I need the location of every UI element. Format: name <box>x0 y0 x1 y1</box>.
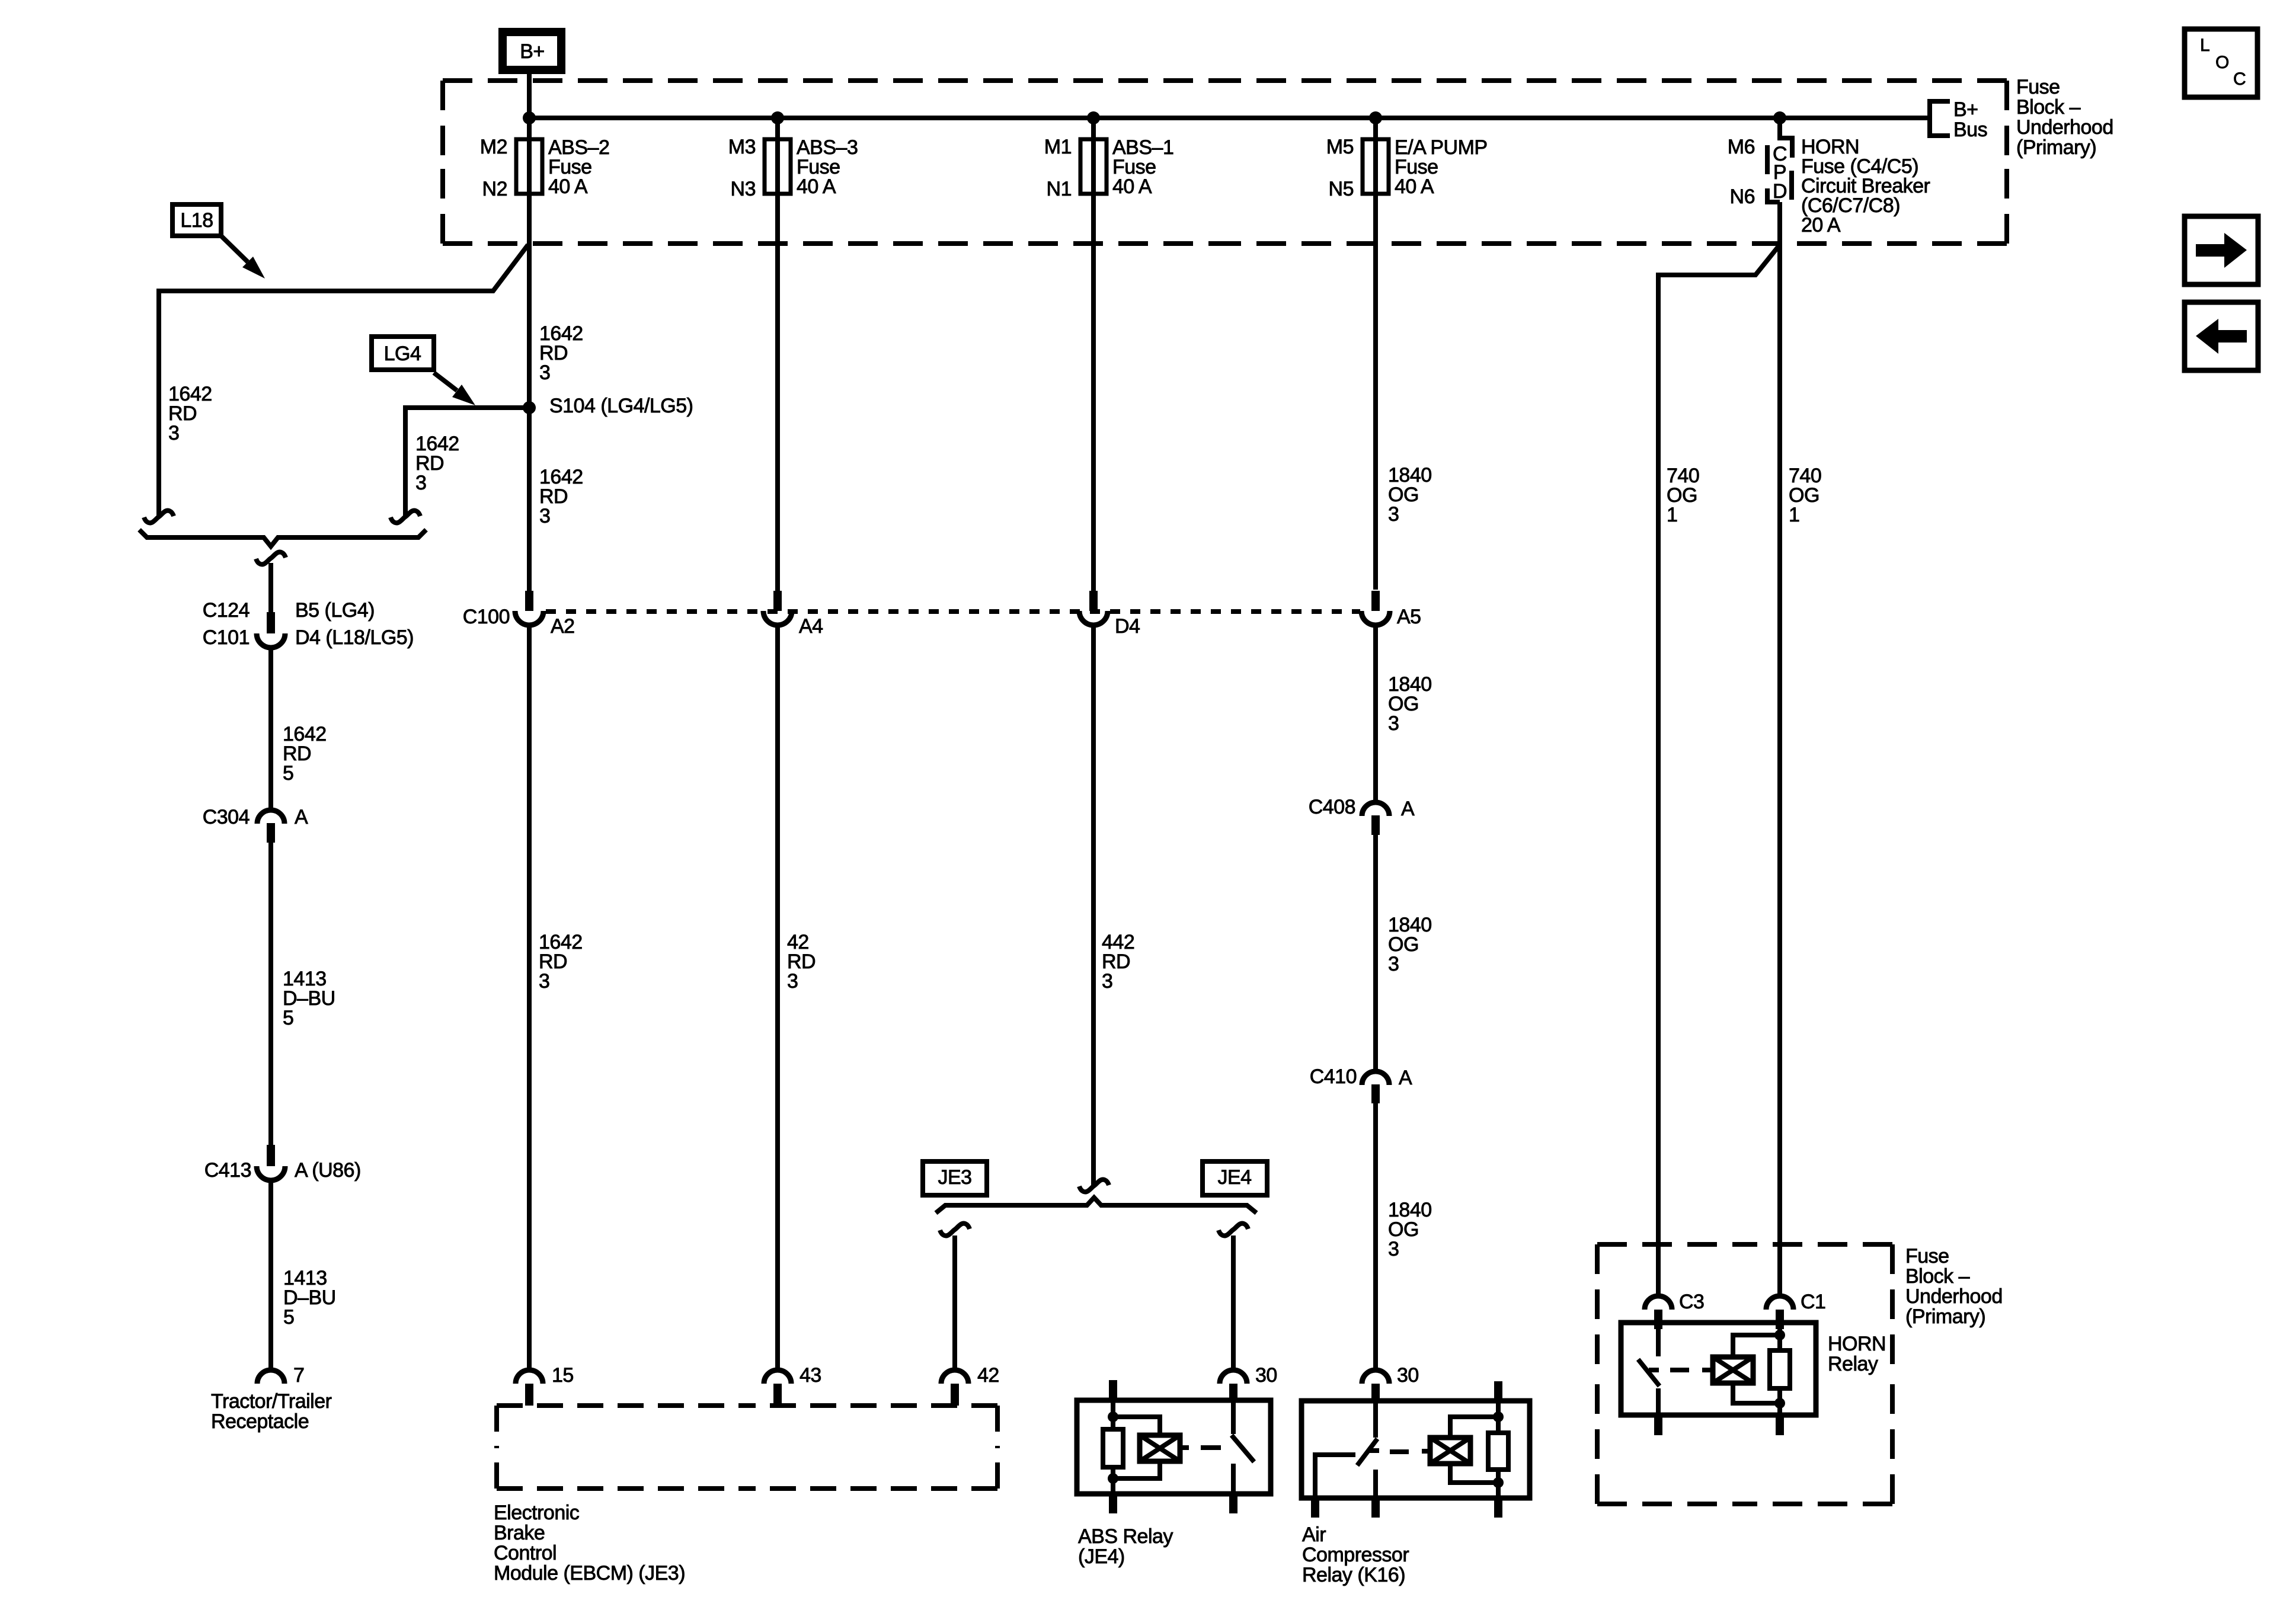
svg-text:42: 42 <box>977 1364 999 1387</box>
svg-text:M3: M3 <box>728 136 756 158</box>
svg-text:N1: N1 <box>1047 178 1072 200</box>
svg-text:(JE4): (JE4) <box>1078 1545 1125 1568</box>
svg-text:Fuse: Fuse <box>1905 1245 1949 1267</box>
wire C101 to C304 <box>268 646 273 810</box>
svg-text:15: 15 <box>552 1364 574 1387</box>
node air relay coil top junction <box>1493 1411 1504 1422</box>
svg-text:A (U86): A (U86) <box>295 1159 361 1182</box>
wire 1642 RD to EBCM pin 15 <box>527 625 532 1370</box>
node bus junction M5 <box>1369 111 1382 124</box>
svg-text:3: 3 <box>1388 1238 1399 1260</box>
svg-text:N6: N6 <box>1730 185 1755 208</box>
svg-text:C: C <box>2233 69 2246 89</box>
legend LOC box <box>2185 29 2257 97</box>
svg-text:A4: A4 <box>799 615 823 638</box>
connector C100 pin A5 <box>1371 591 1380 611</box>
svg-text:40 A: 40 A <box>797 175 836 198</box>
svg-text:N2: N2 <box>482 178 507 200</box>
wire break JE4 branch <box>1219 1224 1248 1236</box>
wire M1 fuse to C100 D4 <box>1091 118 1096 591</box>
svg-text:5: 5 <box>283 1007 293 1029</box>
connector ABS relay pin 30 <box>1220 1370 1247 1384</box>
wire ABS relay left branch <box>1111 1400 1115 1494</box>
svg-text:L: L <box>2200 36 2209 55</box>
svg-text:Underhood: Underhood <box>2016 116 2113 139</box>
wire coil stub <box>1422 1449 1430 1454</box>
node ABS relay coil bottom junction <box>1108 1473 1118 1484</box>
resistor air compressor relay <box>1488 1433 1508 1470</box>
coil horn relay loop wires <box>1733 1335 1780 1357</box>
svg-text:3: 3 <box>1102 970 1112 993</box>
svg-text:3: 3 <box>1388 712 1399 735</box>
svg-text:N5: N5 <box>1329 178 1354 200</box>
wire B+ bus <box>529 116 1927 120</box>
svg-text:7: 7 <box>293 1364 304 1387</box>
node bus junction M2 <box>523 111 536 124</box>
coil ABS relay winding symbol <box>1140 1435 1180 1461</box>
dashed linkage ABS relay <box>1201 1445 1221 1450</box>
connector C408 pin A <box>1362 802 1389 816</box>
connector C100 pin A2 <box>525 591 533 611</box>
svg-text:Control: Control <box>494 1542 557 1564</box>
svg-text:1: 1 <box>1667 504 1677 526</box>
arrow L18 pointer <box>221 236 248 262</box>
node bus junction M3 <box>771 111 784 124</box>
pin ABS relay bottom-right stub <box>1229 1494 1237 1513</box>
node label box JE4 <box>1203 1161 1267 1195</box>
wire C410 to relay 30 <box>1373 1103 1378 1370</box>
svg-text:C3: C3 <box>1679 1291 1704 1313</box>
node label box JE3 <box>923 1161 987 1195</box>
relay HORN relay box <box>1621 1323 1816 1415</box>
svg-text:5: 5 <box>283 1306 294 1329</box>
svg-text:A2: A2 <box>551 615 575 638</box>
svg-text:B5 (LG4): B5 (LG4) <box>295 599 375 622</box>
connector horn relay pin C3 <box>1645 1296 1672 1310</box>
svg-text:ABS Relay: ABS Relay <box>1078 1525 1173 1548</box>
svg-text:Receptacle: Receptacle <box>211 1410 309 1433</box>
wire LG4 branch from S104 <box>405 408 529 517</box>
svg-text:D4 (L18/LG5): D4 (L18/LG5) <box>295 626 414 649</box>
wire M5 fuse to C100 A5 <box>1373 118 1378 590</box>
svg-text:Module (EBCM) (JE3): Module (EBCM) (JE3) <box>494 1562 685 1585</box>
svg-text:40 A: 40 A <box>1395 175 1434 198</box>
wire jog N6 to C3 branch <box>1658 245 1780 1296</box>
svg-text:A5: A5 <box>1397 606 1421 628</box>
svg-text:C413: C413 <box>204 1159 251 1182</box>
svg-text:N3: N3 <box>731 178 756 200</box>
pin horn relay bottom-left stub <box>1654 1415 1662 1435</box>
resistor ABS relay <box>1103 1429 1123 1467</box>
svg-text:L18: L18 <box>180 209 213 232</box>
svg-text:3: 3 <box>415 472 426 494</box>
wire air relay right branch <box>1496 1401 1501 1498</box>
wire 442 RD to splice brace <box>1091 625 1096 1185</box>
svg-text:43: 43 <box>800 1364 821 1387</box>
coil horn relay winding symbol <box>1713 1357 1753 1383</box>
fuse block underhood dashed box <box>443 78 1225 83</box>
wire M2 fuse to C100 A2 <box>527 118 532 591</box>
wire JE3 to EBCM pin 42 <box>952 1235 957 1370</box>
svg-text:A: A <box>1399 1067 1412 1089</box>
svg-text:1: 1 <box>1789 504 1799 526</box>
wire break LG4 branch <box>391 511 420 523</box>
pin air relay bottom-right stub <box>1494 1498 1502 1518</box>
svg-text:(Primary): (Primary) <box>1905 1305 1985 1328</box>
wire B+ box to bus <box>527 74 532 118</box>
fuse M2 ABS–2 40 A <box>516 139 542 194</box>
svg-text:30: 30 <box>1255 1364 1277 1387</box>
pin air relay top-right stub <box>1494 1381 1502 1401</box>
connector horn relay pin C1 <box>1766 1296 1793 1310</box>
svg-text:LG4: LG4 <box>384 343 421 365</box>
node air relay coil bottom junction <box>1493 1477 1504 1488</box>
svg-text:O: O <box>2215 53 2229 72</box>
dashed linkage air relay <box>1390 1449 1409 1454</box>
arrow LG4 pointer <box>434 373 457 391</box>
svg-text:B+: B+ <box>1953 98 1978 121</box>
svg-text:20 A: 20 A <box>1801 214 1841 236</box>
svg-text:B+: B+ <box>520 40 545 63</box>
wire brace to C124 <box>268 563 273 612</box>
svg-text:D: D <box>1773 180 1787 203</box>
svg-text:A: A <box>295 806 308 828</box>
connector terminal 7 tractor/trailer receptacle <box>257 1370 284 1384</box>
connector C100 pin A4 <box>773 591 782 611</box>
fuse M1 ABS–1 40 A <box>1080 139 1107 194</box>
connector EBCM pin 43 <box>764 1370 791 1384</box>
pin ABS relay bottom-left stub <box>1109 1494 1117 1513</box>
svg-text:C124: C124 <box>203 599 250 622</box>
connector C413 pin A (U86) <box>267 1145 275 1166</box>
wire C304 to C413 <box>268 843 273 1145</box>
svg-text:M5: M5 <box>1326 136 1354 158</box>
wire 42 RD to EBCM pin 43 <box>775 625 780 1370</box>
svg-text:A: A <box>1401 798 1415 820</box>
fuse M3 ABS–3 40 A <box>765 139 791 194</box>
coil air compressor relay winding symbol <box>1430 1438 1470 1464</box>
svg-text:Block –: Block – <box>2016 96 2081 119</box>
node label box LG4 <box>372 337 434 370</box>
switch horn relay <box>1656 1329 1661 1356</box>
switch ABS relay <box>1231 1400 1236 1434</box>
dashed line connector C100 <box>546 609 1360 614</box>
svg-text:M6: M6 <box>1728 136 1755 158</box>
fuse block underhood (primary) dashed box bottom <box>1597 1242 1745 1247</box>
circuit breaker CPD (HORN fuse / circuit breaker) <box>1780 138 1792 158</box>
wire coil stub <box>1180 1445 1189 1450</box>
wire air relay fixed contact from bottom-left pin <box>1315 1455 1355 1498</box>
svg-text:Block –: Block – <box>1905 1265 1970 1288</box>
wire M3 fuse to C100 A4 <box>775 118 780 591</box>
svg-text:C304: C304 <box>203 806 250 828</box>
connector C100 pin D4 <box>1089 591 1098 611</box>
switch air compressor relay <box>1373 1401 1378 1438</box>
svg-text:C1: C1 <box>1801 1291 1825 1313</box>
fuse M5 E/A PUMP 40 A <box>1363 139 1389 194</box>
svg-text:3: 3 <box>539 970 549 993</box>
connector EBCM pin 42 <box>941 1370 968 1384</box>
svg-text:40 A: 40 A <box>548 175 588 198</box>
svg-text:JE3: JE3 <box>938 1166 971 1189</box>
pin air relay bottom-left stub <box>1311 1498 1319 1518</box>
svg-text:(Primary): (Primary) <box>2016 136 2096 159</box>
connector EBCM pin 15 <box>516 1370 543 1384</box>
svg-text:Relay (K16): Relay (K16) <box>1302 1564 1405 1586</box>
node bus junction M6 <box>1773 111 1786 124</box>
svg-text:5: 5 <box>283 762 293 785</box>
wire A5 to C408 <box>1373 625 1378 802</box>
svg-text:40 A: 40 A <box>1112 175 1152 198</box>
node ABS relay coil top junction <box>1108 1411 1118 1422</box>
wire C413 to receptacle <box>268 1179 273 1370</box>
legend arrow right box <box>2185 216 2258 284</box>
coil ABS relay loop wires <box>1113 1417 1160 1435</box>
svg-text:C408: C408 <box>1309 796 1355 818</box>
svg-text:30: 30 <box>1397 1364 1419 1387</box>
pin air relay bottom-middle stub <box>1371 1498 1380 1518</box>
wire JE4 to ABS relay 30 <box>1231 1235 1236 1370</box>
power feed B+ box <box>503 32 561 70</box>
node horn relay coil bottom junction <box>1774 1398 1785 1409</box>
wire break JE3 branch <box>940 1224 970 1236</box>
wire break L18 branch <box>144 511 174 523</box>
wire coil stub <box>1702 1368 1713 1372</box>
svg-text:C101: C101 <box>203 626 250 649</box>
svg-text:3: 3 <box>787 970 798 993</box>
svg-text:C100: C100 <box>463 606 510 628</box>
node horn relay coil top junction <box>1774 1330 1785 1340</box>
wire M6 to circuit breaker <box>1777 118 1782 140</box>
connector C124 pin B5 <box>267 612 275 633</box>
connector C410 pin A <box>1362 1071 1389 1085</box>
wire C408 to C410 <box>1373 835 1378 1073</box>
wire horn relay right branch <box>1777 1329 1782 1415</box>
pin ABS relay top-left stub <box>1109 1380 1117 1400</box>
svg-text:3: 3 <box>168 422 179 444</box>
svg-text:Bus: Bus <box>1953 119 1987 141</box>
connector C304 pin A <box>257 810 284 824</box>
relay ABS relay box <box>1077 1400 1271 1494</box>
brace split JE3/JE4 <box>936 1198 1256 1213</box>
svg-text:Fuse: Fuse <box>2016 76 2060 98</box>
connector air compressor relay pin 30 <box>1362 1370 1389 1384</box>
wire break below brace <box>256 552 286 565</box>
svg-text:3: 3 <box>539 505 550 527</box>
pin horn relay bottom-right stub <box>1776 1415 1784 1435</box>
svg-text:D4: D4 <box>1115 615 1140 638</box>
svg-text:Relay: Relay <box>1828 1353 1878 1375</box>
svg-text:JE4: JE4 <box>1217 1166 1251 1189</box>
legend arrow left box <box>2185 302 2258 370</box>
svg-text:Air: Air <box>1302 1523 1326 1546</box>
svg-text:Electronic: Electronic <box>494 1502 580 1524</box>
svg-text:3: 3 <box>1388 503 1399 526</box>
node label box L18 <box>172 204 221 236</box>
svg-text:3: 3 <box>539 361 550 384</box>
svg-text:M1: M1 <box>1044 136 1072 158</box>
resistor horn relay <box>1770 1350 1790 1388</box>
svg-text:Compressor: Compressor <box>1302 1544 1409 1566</box>
dashed linkage horn relay <box>1670 1368 1689 1372</box>
node bus junction M1 <box>1087 111 1100 124</box>
svg-text:Underhood: Underhood <box>1905 1285 2003 1308</box>
svg-text:HORN: HORN <box>1828 1333 1886 1355</box>
relay air compressor relay box <box>1302 1401 1530 1498</box>
svg-text:Brake: Brake <box>494 1522 545 1544</box>
B+ Bus terminal bracket <box>1930 101 1950 136</box>
svg-text:Tractor/Trailer: Tractor/Trailer <box>211 1390 332 1413</box>
svg-text:M2: M2 <box>480 136 507 158</box>
splice S104 <box>523 401 536 414</box>
svg-text:3: 3 <box>1388 953 1399 975</box>
brace merge L18/LG4 wires <box>139 530 426 546</box>
svg-text:C410: C410 <box>1310 1065 1357 1088</box>
wire L18 branch horizontal <box>159 245 528 516</box>
wire N6 down to C1 (740 OG) <box>1777 202 1782 1296</box>
connector C101 pin D4 <box>257 633 285 648</box>
svg-text:S104 (LG4/LG5): S104 (LG4/LG5) <box>549 395 693 417</box>
wire break 442 RD at brace <box>1079 1180 1109 1192</box>
coil air relay loop wires <box>1450 1417 1498 1438</box>
module EBCM dashed box <box>497 1403 747 1408</box>
